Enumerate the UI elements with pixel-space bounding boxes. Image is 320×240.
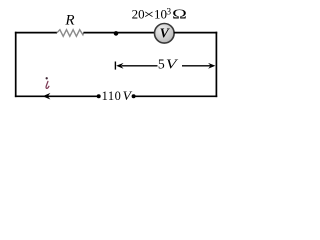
wire bottom right: [135, 95, 217, 97]
svg-text:V: V: [123, 88, 133, 102]
node junction dot: [114, 31, 119, 36]
voltmeter V: [155, 24, 175, 44]
label i: [46, 77, 48, 79]
svg-text:×: ×: [143, 7, 154, 22]
svg-text:V: V: [166, 57, 179, 72]
wire top right: [174, 32, 217, 34]
resistor R: [57, 30, 84, 37]
svg-text:5: 5: [158, 57, 165, 72]
5V dimension right arrow: [182, 65, 211, 67]
svg-text:R: R: [64, 13, 74, 29]
wire bottom left: [15, 95, 97, 97]
wire top middle: [83, 32, 155, 34]
node bullet left: [97, 94, 101, 98]
svg-text:Ω: Ω: [172, 7, 187, 22]
current arrow head: [43, 93, 51, 100]
svg-text:110: 110: [102, 89, 122, 103]
svg-text:103: 103: [154, 6, 171, 21]
5V dimension left arrow: [116, 63, 123, 69]
5V dimension tick: [114, 62, 116, 70]
node bullet right: [132, 94, 136, 98]
wire top left: [15, 32, 57, 34]
wire left side: [15, 32, 17, 97]
wire right side: [215, 32, 217, 97]
